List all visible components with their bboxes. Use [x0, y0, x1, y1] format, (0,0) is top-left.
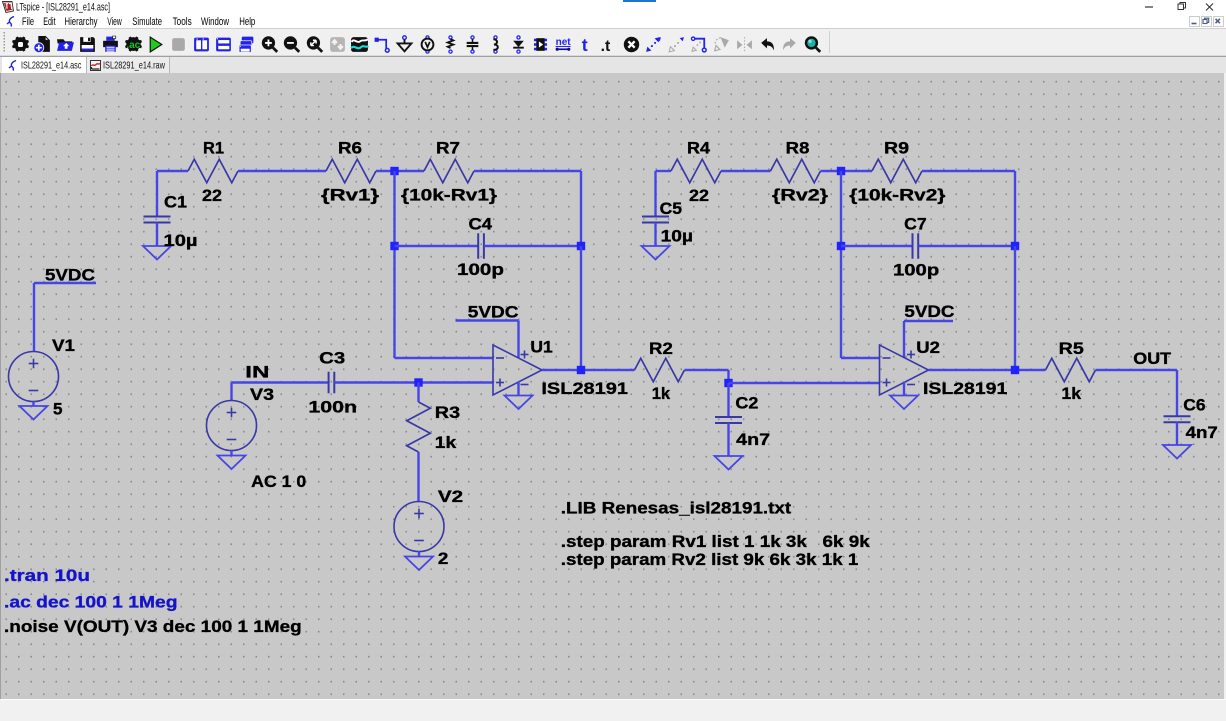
wire	[32, 402, 34, 407]
resistor R5	[1046, 358, 1096, 382]
wire	[517, 382, 519, 396]
node A	[390, 167, 398, 175]
svg-text:.tran 10u: .tran 10u	[4, 566, 90, 585]
svg-text:100n: 100n	[308, 398, 357, 417]
wire	[484, 245, 581, 247]
ground	[890, 396, 918, 410]
voltage source V1	[9, 352, 59, 402]
wire	[34, 282, 96, 284]
ground	[143, 246, 171, 260]
wire	[685, 369, 729, 371]
node C	[577, 242, 585, 250]
capacitor C3	[329, 372, 335, 394]
node H	[1011, 242, 1019, 250]
menu bar	[0, 14, 1226, 29]
ground	[715, 456, 743, 470]
wire	[919, 245, 1016, 247]
svg-text:U2: U2	[916, 338, 940, 357]
ground	[218, 456, 246, 470]
MDI child window buttons	[1189, 16, 1200, 27]
wire	[157, 170, 188, 172]
svg-text:AC 1 0: AC 1 0	[251, 472, 306, 491]
wire	[456, 319, 519, 321]
wire	[929, 369, 1046, 371]
svg-text:1k: 1k	[652, 384, 671, 403]
svg-text:22: 22	[689, 186, 709, 205]
wire	[904, 320, 953, 322]
svg-text:1k: 1k	[435, 433, 457, 452]
voltage source V3	[207, 401, 257, 451]
resistor R7	[424, 159, 474, 183]
svg-text:View: View	[107, 16, 121, 28]
wire	[232, 381, 329, 383]
wire	[654, 171, 656, 217]
svg-text:C3: C3	[319, 349, 345, 368]
svg-text:R7: R7	[436, 139, 460, 158]
svg-text:{Rv1}: {Rv1}	[321, 186, 379, 205]
wire	[33, 283, 35, 352]
wire	[418, 552, 420, 557]
capacitor C1	[144, 217, 171, 223]
svg-text:R9: R9	[884, 139, 909, 158]
svg-text:.ac: .ac	[126, 40, 140, 51]
svg-text:R4: R4	[687, 139, 711, 158]
svg-text:V2: V2	[438, 487, 463, 506]
resistor R3	[407, 402, 431, 452]
wire	[156, 223, 158, 247]
ground	[505, 396, 533, 410]
wire	[841, 245, 913, 247]
resistor R8	[771, 159, 821, 183]
wire	[656, 170, 672, 172]
resistor R2	[635, 358, 685, 382]
wire	[580, 246, 582, 370]
svg-text:4n7: 4n7	[736, 430, 770, 449]
svg-text:t: t	[581, 35, 587, 54]
op-amp U1	[493, 345, 542, 395]
wire	[230, 451, 232, 456]
capacitor C7	[913, 233, 919, 259]
op-amp U2	[880, 345, 929, 395]
svg-text:LTspice - [ISL28291_e14.asc]: LTspice - [ISL28291_e14.asc]	[16, 2, 110, 14]
wire	[1096, 369, 1178, 371]
wire	[230, 383, 232, 401]
svg-text:ISL28191: ISL28191	[923, 379, 1007, 398]
svg-text:5: 5	[53, 400, 63, 419]
window buttons	[1140, 0, 1226, 14]
svg-text:{Rv2}: {Rv2}	[772, 186, 828, 205]
svg-text:C1: C1	[164, 193, 187, 212]
wire	[417, 452, 419, 502]
svg-text:OUT: OUT	[1133, 349, 1171, 368]
wire	[727, 370, 729, 383]
svg-text:1k: 1k	[1061, 384, 1081, 403]
wire	[841, 170, 872, 172]
resistor R4	[671, 159, 721, 183]
ground	[642, 246, 670, 260]
node E	[724, 379, 732, 387]
svg-text:V3: V3	[250, 385, 274, 404]
wire	[1176, 370, 1178, 416]
svg-text:R3: R3	[435, 403, 460, 422]
svg-text:C6: C6	[1183, 396, 1205, 415]
svg-text:100p: 100p	[457, 260, 504, 279]
node IN2	[414, 378, 422, 386]
svg-text:R8: R8	[786, 139, 810, 158]
svg-text:5VDC: 5VDC	[468, 303, 519, 322]
wire	[517, 321, 519, 358]
svg-text:.LIB Renesas_isl28191.txt: .LIB Renesas_isl28191.txt	[561, 498, 792, 517]
capacitor C2	[715, 417, 742, 423]
wire	[727, 423, 729, 456]
svg-text:R5: R5	[1059, 339, 1084, 358]
resistor R1	[188, 159, 238, 183]
svg-text:.noise V(OUT) V3 dec 100 1 1Me: .noise V(OUT) V3 dec 100 1 1Meg	[4, 617, 302, 636]
wire	[1176, 422, 1178, 445]
title bar	[0, 0, 1226, 14]
svg-text:R6: R6	[338, 139, 362, 158]
svg-text:5VDC: 5VDC	[45, 266, 95, 285]
svg-text:Edit: Edit	[43, 16, 55, 28]
svg-text:Simulate: Simulate	[132, 16, 162, 28]
wire	[395, 245, 479, 247]
svg-text:ISL28291_e14.asc: ISL28291_e14.asc	[21, 60, 81, 72]
svg-text:C7: C7	[904, 215, 927, 234]
svg-text:Window: Window	[201, 16, 229, 28]
wire	[1014, 246, 1016, 370]
svg-text:{10k-Rv2}: {10k-Rv2}	[849, 186, 946, 205]
wire	[821, 170, 842, 172]
capacitor C6	[1164, 416, 1191, 422]
svg-text:net: net	[555, 37, 571, 48]
ground	[20, 406, 48, 420]
svg-text:Tools: Tools	[173, 16, 192, 28]
svg-text:U1: U1	[530, 338, 552, 357]
wire	[395, 357, 494, 359]
wire	[334, 381, 493, 383]
node I	[1011, 366, 1019, 374]
wire	[474, 170, 581, 172]
wire	[376, 170, 395, 172]
svg-text:V1: V1	[52, 336, 75, 355]
svg-text:ISL28291_e14.raw: ISL28291_e14.raw	[103, 60, 165, 72]
svg-text:10µ: 10µ	[661, 227, 693, 246]
wire	[654, 223, 656, 247]
wire	[841, 357, 880, 359]
wire	[417, 383, 419, 403]
svg-text:{10k-Rv1}: {10k-Rv1}	[401, 186, 497, 205]
wire	[580, 171, 582, 246]
svg-text:10µ: 10µ	[164, 231, 198, 250]
wire	[903, 382, 905, 396]
ground	[405, 557, 433, 571]
svg-text:C2: C2	[735, 394, 758, 413]
wire	[727, 383, 729, 417]
svg-text:IN: IN	[245, 363, 269, 382]
wire	[840, 171, 842, 358]
wire	[395, 170, 425, 172]
wire	[922, 170, 1015, 172]
wire	[156, 171, 158, 217]
wire	[238, 170, 326, 172]
status bar	[0, 699, 1226, 721]
svg-text:100p: 100p	[893, 261, 939, 280]
svg-text:File: File	[22, 16, 34, 28]
svg-text:.ac dec 100 1 1Meg: .ac dec 100 1 1Meg	[4, 593, 178, 612]
wire	[729, 382, 880, 384]
resistor R9	[872, 159, 922, 183]
ground	[1163, 445, 1191, 459]
node D	[577, 366, 585, 374]
capacitor C4	[478, 233, 484, 259]
capacitor C5	[642, 217, 669, 223]
svg-text:2: 2	[438, 549, 449, 568]
svg-text:Help: Help	[239, 16, 255, 28]
svg-text:ISL28191: ISL28191	[541, 379, 628, 398]
svg-text:4n7: 4n7	[1186, 423, 1218, 442]
svg-text:5VDC: 5VDC	[904, 302, 954, 321]
svg-text:22: 22	[202, 186, 222, 205]
svg-text:C5: C5	[660, 199, 682, 218]
resistor R6	[326, 159, 376, 183]
wire	[542, 369, 635, 371]
wire	[1014, 171, 1016, 246]
node G	[837, 242, 845, 250]
svg-text:Hierarchy: Hierarchy	[65, 16, 98, 28]
svg-text:C4: C4	[469, 215, 493, 234]
toolbar	[0, 29, 1226, 56]
wire	[393, 171, 395, 358]
svg-text:.step param Rv2 list 9k 6k 3k: .step param Rv2 list 9k 6k 3k 1k 1	[561, 550, 859, 569]
svg-text:.t: .t	[601, 37, 611, 53]
node B	[390, 242, 398, 250]
node F	[837, 167, 845, 175]
tab bar	[0, 56, 1226, 73]
voltage source V2	[394, 502, 444, 552]
wire	[903, 321, 905, 358]
svg-text:R2: R2	[649, 339, 673, 358]
svg-text:R1: R1	[203, 139, 224, 158]
svg-text:.step param Rv1 list 1 1k 3k: .step param Rv1 list 1 1k 3k 6k 9k	[561, 532, 870, 551]
wire	[721, 170, 771, 172]
